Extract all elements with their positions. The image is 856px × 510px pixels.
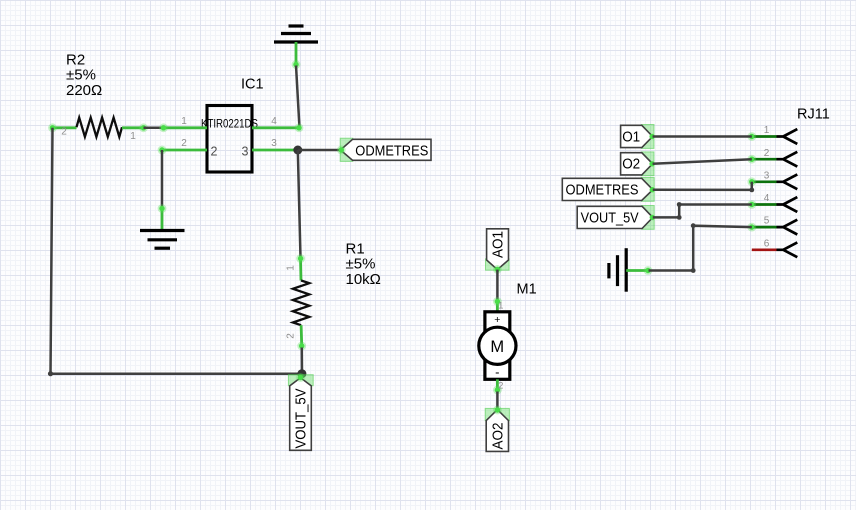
svg-text:1: 1 bbox=[286, 265, 297, 271]
pin label IC1-2 bbox=[181, 138, 187, 149]
resistor R2 symbol bbox=[48, 118, 148, 137]
net label O2 bbox=[621, 152, 655, 176]
svg-text:RJ11: RJ11 bbox=[797, 106, 830, 122]
wire: R2 pin2 down and along bottom rail bbox=[48, 128, 302, 377]
svg-text:O1: O1 bbox=[622, 128, 640, 145]
IC1 pin 2 stub bbox=[158, 146, 207, 155]
IC1 pin 1 stub bbox=[159, 123, 207, 132]
pin label IC1-3 bbox=[271, 138, 277, 149]
net label ODMETRES (left) bbox=[337, 138, 431, 161]
svg-text:1: 1 bbox=[764, 125, 770, 136]
svg-text:220Ω: 220Ω bbox=[66, 82, 102, 99]
svg-text:ODMETRES: ODMETRES bbox=[566, 181, 639, 198]
svg-text:AO1: AO1 bbox=[489, 231, 506, 258]
svg-text:2: 2 bbox=[211, 145, 218, 159]
wire: R2 pin1 to IC1 pin1 bbox=[144, 127, 164, 130]
wire: ground to IC1 pin 4 bbox=[296, 66, 300, 129]
ground symbol (lower left) bbox=[140, 204, 185, 248]
pin label M1-2 bbox=[498, 381, 503, 392]
svg-text:1: 1 bbox=[130, 131, 136, 142]
svg-text:±5%: ±5% bbox=[346, 256, 376, 273]
net label VOUT_5V (right) bbox=[577, 206, 655, 230]
svg-text:2: 2 bbox=[764, 148, 770, 159]
resistor R1 value label bbox=[346, 241, 381, 289]
resistor R2 value label bbox=[66, 52, 102, 100]
svg-text:IC1: IC1 bbox=[241, 77, 264, 93]
motor M1 pin 2 stub bbox=[493, 379, 502, 394]
svg-text:5: 5 bbox=[764, 216, 770, 227]
node: bottom rail junction bbox=[297, 369, 306, 378]
net label ODMETRES (right) bbox=[562, 178, 655, 202]
IC1 inner pin numbers bbox=[211, 145, 249, 159]
connector RJ11 pin 3 bbox=[747, 174, 797, 189]
svg-text:ODMETRES: ODMETRES bbox=[355, 142, 428, 159]
pin label RJ11-2 bbox=[764, 148, 770, 159]
connector RJ11 pin 1 bbox=[747, 129, 797, 144]
IC IC1 designator bbox=[241, 77, 264, 93]
svg-text:10kΩ: 10kΩ bbox=[346, 271, 381, 288]
net label O1 bbox=[621, 125, 655, 149]
connector RJ11 designator bbox=[797, 106, 830, 122]
svg-text:+: + bbox=[494, 314, 500, 326]
wire: IC1 pin2 to lower ground bbox=[161, 150, 164, 209]
svg-text:2: 2 bbox=[286, 333, 297, 339]
wire: right ground stub bbox=[626, 266, 652, 275]
wire: ground pin stub bbox=[292, 42, 301, 69]
node: IC1 pin3 junction bbox=[293, 146, 302, 155]
wire: O2 to RJ11 pin2 bbox=[653, 159, 752, 164]
net label VOUT_5V (bottom, vertical) bbox=[288, 373, 313, 450]
pin label R2-1 bbox=[130, 131, 136, 142]
ground symbol (top, flipped) bbox=[274, 26, 318, 42]
wire: R1 pin2 to bottom junction bbox=[301, 348, 304, 372]
svg-text:1: 1 bbox=[498, 301, 503, 312]
svg-text:VOUT_5V: VOUT_5V bbox=[292, 389, 309, 449]
IC U1 KTIR0221DS body bbox=[201, 106, 258, 173]
connector RJ11 pin 2 bbox=[747, 152, 797, 167]
svg-text:2: 2 bbox=[61, 127, 67, 138]
wire: motor pin2 to AO2 bbox=[496, 392, 499, 410]
svg-text:4: 4 bbox=[764, 193, 770, 204]
connector RJ11 pin 6 bbox=[752, 242, 798, 257]
svg-text:AO2: AO2 bbox=[489, 423, 506, 450]
ground symbol (right, rotated) bbox=[609, 248, 626, 292]
svg-text:VOUT_5V: VOUT_5V bbox=[581, 209, 639, 226]
resistor R1 symbol bbox=[293, 254, 309, 350]
pin label RJ11-1 bbox=[764, 125, 770, 136]
svg-text:M1: M1 bbox=[517, 282, 537, 298]
svg-text:6: 6 bbox=[764, 238, 770, 249]
svg-text:2: 2 bbox=[181, 138, 187, 149]
svg-text:M: M bbox=[490, 338, 504, 356]
net label AO1 (vertical) bbox=[486, 229, 510, 274]
pin label R1-2 bbox=[286, 333, 297, 339]
motor M1 symbol bbox=[479, 312, 516, 380]
wire: VOUT_5V to RJ11 pin4 bbox=[653, 202, 752, 220]
svg-text:3: 3 bbox=[242, 145, 249, 159]
pin label RJ11-6 bbox=[764, 238, 770, 249]
svg-text:3: 3 bbox=[271, 138, 277, 149]
motor M1 designator bbox=[517, 282, 537, 298]
IC1 pin 3 stub bbox=[252, 149, 298, 152]
wire: O1 to RJ11 pin1 bbox=[653, 135, 752, 138]
pin label R2-2 bbox=[61, 127, 67, 138]
net label AO2 (vertical) bbox=[485, 406, 509, 452]
svg-text:KTIR0221DS: KTIR0221DS bbox=[201, 116, 258, 130]
pin label RJ11-4 bbox=[764, 193, 770, 204]
svg-text:4: 4 bbox=[271, 116, 277, 127]
pin label RJ11-3 bbox=[764, 170, 770, 181]
pin label IC1-1 bbox=[181, 116, 187, 127]
svg-text:O2: O2 bbox=[622, 156, 640, 173]
svg-text:2: 2 bbox=[498, 381, 503, 392]
wire: ODMETRES to RJ11 pin3 bbox=[653, 182, 754, 193]
svg-text:-: - bbox=[495, 365, 499, 380]
motor M1 pin 1 stub bbox=[493, 297, 502, 312]
svg-text:1: 1 bbox=[181, 116, 187, 127]
IC1 pin 4 stub bbox=[252, 123, 303, 132]
connector RJ11 pin 4 bbox=[747, 197, 797, 212]
svg-text:±5%: ±5% bbox=[66, 67, 96, 84]
wire: AO1 to motor pin1 bbox=[496, 270, 499, 300]
svg-text:3: 3 bbox=[764, 170, 770, 181]
pin label M1-1 bbox=[498, 301, 503, 312]
pin label IC1-4 bbox=[271, 116, 277, 127]
wire: junction down to R1 bbox=[298, 150, 301, 258]
pin label RJ11-5 bbox=[764, 216, 770, 227]
connector RJ11 pin 5 bbox=[747, 220, 797, 235]
wire: junction to ODMETRES flag bbox=[298, 149, 341, 152]
pin label R1-1 bbox=[286, 265, 297, 271]
wire: right ground to RJ11 pin5 bbox=[649, 223, 752, 273]
